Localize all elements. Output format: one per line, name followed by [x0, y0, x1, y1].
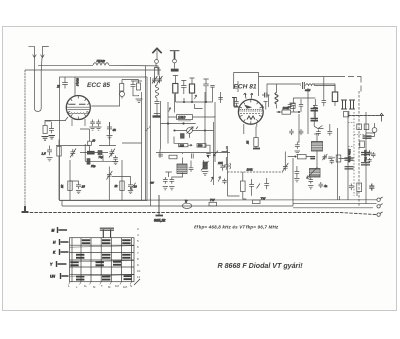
- resistor R7: [120, 181, 124, 191]
- capacitor C20: [192, 154, 194, 159]
- ground G15: [308, 186, 313, 189]
- capacitor C30 coupling: [303, 82, 305, 89]
- svg-text:50/0,8: 50/0,8: [76, 78, 80, 86]
- svg-text:80/1,2k: 80/1,2k: [154, 219, 166, 223]
- varicap VC1: [187, 128, 193, 134]
- wire top bus 1: [38, 65, 158, 80]
- wire antenna lead 1: [33, 58, 35, 108]
- wire mid verticals: [70, 80, 146, 200]
- inductor L3 input coil: [155, 84, 159, 102]
- box K2: [344, 112, 349, 117]
- svg-text:T.: T.: [101, 284, 103, 288]
- wire top bus 2: [25, 69, 161, 71]
- capacitor C22 dark: [203, 162, 207, 169]
- resistor R4: [57, 147, 61, 157]
- svg-text:ℓf kp= 468,8 kHz és VT fkp=: ℓf kp= 468,8 kHz és VT fkp= 96,7 MHz: [194, 225, 279, 230]
- capacitor C11 15p: [76, 183, 81, 190]
- ground G14: [294, 179, 299, 182]
- mid IF box: [62, 77, 293, 206]
- capacitor C17: [210, 86, 214, 103]
- wire x337 vertical: [337, 128, 339, 200]
- svg-text:1M: 1M: [115, 284, 120, 288]
- capacitor C15: [181, 81, 186, 95]
- capacitor C19: [158, 150, 163, 159]
- svg-text:100: 100: [180, 143, 185, 147]
- wire osc loop: [80, 129, 118, 164]
- capacitor C52: [299, 129, 304, 135]
- ground G5: [96, 127, 102, 130]
- IFT block T2 hatched: [312, 142, 323, 152]
- matrix columns: [81, 238, 121, 282]
- trimmer CT2: [109, 149, 115, 158]
- svg-text:10: 10: [92, 139, 95, 143]
- wire cathode leads: [45, 117, 68, 126]
- capacitor C1 2t: [62, 77, 68, 89]
- resistor R3: [43, 126, 47, 134]
- resistor R12 below line: [169, 155, 177, 159]
- capacitor C42: [357, 124, 362, 130]
- ground G3: [49, 136, 56, 139]
- switch lever M: [58, 227, 68, 233]
- capacitor C57 dark: [181, 134, 185, 139]
- resistor R20: [357, 183, 362, 192]
- inductor L1 top coil: [93, 63, 109, 65]
- inductor L2 50/0,8 lead: [74, 77, 76, 96]
- wire left chassis vertical: [24, 70, 26, 212]
- capacitor C13: [155, 102, 160, 107]
- terminal chassis ground left: [22, 206, 29, 212]
- svg-text:1L: 1L: [84, 284, 88, 288]
- svg-text:FE16t: FE16t: [97, 59, 105, 63]
- capacitor C22b 100p: [220, 162, 224, 171]
- capacitor C32: [322, 95, 327, 106]
- arrow AGC small: [195, 95, 197, 99]
- capacitor C38: [309, 178, 314, 184]
- terminal output circles: [377, 197, 383, 216]
- svg-text:M: M: [52, 229, 55, 233]
- capacitor C49: [234, 98, 238, 108]
- AM antenna coupling bar: [171, 69, 178, 71]
- contact blocks: [70, 239, 132, 280]
- capacitor C55: [328, 157, 335, 159]
- inductor L5 dark: [275, 93, 278, 105]
- trimmer CT1: [70, 149, 76, 158]
- svg-text:2k: 2k: [114, 184, 119, 188]
- FM tuner box: [60, 77, 148, 201]
- trimmer pot circle: [120, 92, 125, 97]
- ground G4: [90, 127, 96, 130]
- wire tube top left: [234, 81, 239, 106]
- bottom tick labels: [68, 284, 133, 289]
- svg-text:1010: 1010: [178, 116, 186, 120]
- wire anode to right: [91, 80, 138, 107]
- wire osc bottom: [165, 172, 182, 177]
- wire osc section row: [156, 151, 230, 153]
- box K1: [291, 103, 296, 108]
- trimmer CT5 FM lead: [157, 76, 162, 84]
- svg-text:ECH 81: ECH 81: [234, 84, 257, 91]
- ground G18: [202, 172, 209, 176]
- resistor R19: [336, 155, 341, 162]
- svg-text:R 8668 F Diodal VT gyári!: R 8668 F Diodal VT gyári!: [218, 262, 304, 270]
- capacitor C40 top right: [316, 130, 321, 136]
- trimmer CT6: [283, 163, 289, 172]
- tube U2 ECH81 envelope: [238, 99, 263, 124]
- wire osc row: [56, 122, 116, 146]
- wire x325 vertical: [323, 77, 325, 95]
- resistor R8 bold: [173, 84, 178, 94]
- wire osc verticals: [183, 146, 227, 166]
- resistor R5 dark: [87, 159, 90, 165]
- tube U1 electrodes: [67, 96, 90, 127]
- capacitor C53: [371, 149, 373, 151]
- IF transformer box 1010: [177, 115, 193, 120]
- capacitor C29: [313, 99, 318, 112]
- ground G16: [156, 215, 164, 217]
- slash mark: [134, 279, 140, 285]
- capacitor C28: [299, 99, 303, 112]
- wire to R15: [315, 86, 336, 93]
- resistor R10: [179, 144, 188, 147]
- capacitor C12 10p: [128, 183, 133, 190]
- pin arrow into grid: [244, 93, 253, 99]
- capacitor C34 thick: [311, 119, 319, 121]
- capacitor C25: [169, 177, 174, 184]
- ground G12: [169, 187, 174, 190]
- tube U1 ECC85 envelope: [66, 96, 90, 120]
- capacitor C27: [291, 98, 296, 112]
- ground bus bottom dashed: [25, 213, 377, 215]
- svg-text:15: 15: [82, 185, 86, 189]
- trimmer CT3: [107, 171, 113, 180]
- AM antenna symbol: [170, 50, 180, 52]
- capacitor C24: [163, 177, 168, 184]
- capacitor C16 T: [203, 79, 208, 102]
- capacitor C41: [327, 124, 332, 136]
- trimmer arrow on C12: [131, 183, 136, 190]
- ground G17: [253, 148, 260, 150]
- FM dipole antenna symbol: [152, 48, 161, 53]
- resistor R21 on bus: [209, 202, 217, 206]
- ground G1: [136, 99, 143, 103]
- chassis bar B1: [153, 115, 161, 117]
- svg-text:10p: 10p: [91, 164, 96, 168]
- fuse Tr oval: [182, 203, 192, 208]
- capacitor C35: [295, 143, 300, 149]
- capacitor C20b: [206, 154, 210, 159]
- capacitor C48 electrolytic: [369, 184, 374, 191]
- arrow osc: [214, 150, 228, 157]
- switch lever K: [60, 249, 69, 255]
- ground G11: [163, 187, 168, 190]
- matrix frame: [70, 238, 135, 282]
- capacitor C44: [367, 150, 372, 156]
- wire vertical V1: [347, 112, 349, 200]
- capacitor C51: [289, 129, 294, 135]
- row diagonal links: [70, 246, 135, 277]
- wire mixer junction row: [176, 98, 213, 102]
- dashed AGC wire: [228, 171, 284, 173]
- wire tube left pin: [232, 98, 239, 108]
- svg-text:10: 10: [137, 269, 141, 273]
- resistor R15 bold: [332, 92, 337, 102]
- wire T2 T3 link: [314, 134, 317, 169]
- capacitor C36: [295, 166, 300, 177]
- wire links right mid: [285, 114, 314, 178]
- resistor R1: [120, 84, 124, 92]
- resistor R6: [68, 181, 72, 191]
- capacitor C45: [367, 158, 371, 163]
- arrow junction: [314, 126, 323, 129]
- switch lever H: [60, 239, 69, 245]
- wire bus lower right extra: [293, 204, 377, 208]
- wire dashed inner column: [353, 112, 355, 196]
- capacitor C54: [371, 152, 375, 158]
- capacitor C8 6p: [88, 141, 92, 145]
- capacitor C9b dark: [98, 151, 102, 155]
- wire h links: [293, 98, 315, 121]
- resistor R2: [137, 83, 141, 90]
- resistor R16: [298, 155, 307, 159]
- ground G10: [128, 191, 133, 194]
- wire to 1010 box: [161, 101, 203, 150]
- resistor R14 100k: [282, 110, 291, 114]
- matrix rows: [70, 245, 135, 274]
- svg-text:40: 40: [113, 128, 117, 132]
- IF transformer H-coils: [341, 100, 355, 109]
- wire inner top right loop: [267, 84, 335, 93]
- svg-text:100: 100: [218, 161, 223, 165]
- resistor R13 under tube: [254, 138, 258, 147]
- wire antenna U-link: [34, 108, 41, 111]
- dashed IF box right: [358, 91, 360, 206]
- svg-text:N.: N.: [130, 284, 133, 288]
- svg-text:11: 11: [137, 275, 140, 279]
- capacitor C5 under tube: [96, 120, 101, 127]
- capacitor C6 40p: [107, 122, 112, 134]
- capacitor C10: [113, 156, 117, 162]
- wire osc grid: [262, 102, 268, 110]
- capacitor C18: [218, 98, 223, 100]
- wire link2: [112, 143, 142, 183]
- svg-text:2k: 2k: [60, 184, 64, 189]
- svg-text:UH: UH: [50, 275, 55, 279]
- wire right link: [222, 146, 240, 196]
- drive shaft top-hat: [100, 228, 114, 238]
- ground G13: [295, 151, 300, 154]
- antenna A2 dipole half: [41, 46, 49, 57]
- wire vertical V3: [339, 196, 341, 200]
- trimmer CT7: [322, 154, 327, 160]
- wire mid verticals: [175, 92, 221, 162]
- svg-text:ECC 85: ECC 85: [87, 82, 110, 89]
- terminal det output: [380, 113, 383, 121]
- right pin numbers: [137, 227, 141, 279]
- wire bus lower 1: [60, 199, 377, 201]
- resistor R11: [197, 144, 206, 148]
- resistor R18: [360, 141, 365, 148]
- svg-text:1,5: 1,5: [42, 152, 47, 156]
- capacitor C58 bars: [363, 136, 372, 138]
- capacitor C14 T: [173, 76, 178, 84]
- wire R4 down: [50, 146, 60, 201]
- dashed detector line: [348, 115, 384, 117]
- bottom ticks: [69, 282, 132, 285]
- tube U2 electrodes: [239, 99, 262, 134]
- ground G9: [76, 191, 81, 194]
- capacitor C37: [249, 179, 254, 196]
- wire FM twin lead: [155, 67, 160, 76]
- wire x308 vertical: [307, 88, 309, 134]
- resistor R17: [241, 181, 246, 192]
- wire outer top right loop: [234, 73, 361, 97]
- svg-text:100k: 100k: [247, 168, 254, 172]
- capacitor C23 34p: [224, 162, 231, 170]
- capacitor C3: [49, 126, 54, 133]
- wire dashed diag: [146, 127, 151, 132]
- svg-text:500: 500: [198, 144, 203, 148]
- capacitor C21: [189, 166, 194, 172]
- wire osc row2: [80, 152, 108, 154]
- svg-text:M.: M.: [108, 285, 111, 289]
- inductor L6: [306, 84, 315, 86]
- resistor R9 bold: [190, 78, 195, 84]
- wire vertical V2: [365, 112, 367, 204]
- svg-text:2k: 2k: [246, 140, 250, 145]
- svg-text:100n 50n: 100n 50n: [364, 150, 368, 162]
- capacitor C39 4n: [319, 182, 324, 188]
- switch lever UH: [61, 273, 69, 279]
- capacitor C7 1,5p: [47, 148, 52, 155]
- pot symbol P1: [372, 128, 377, 133]
- wire bus lower 2: [62, 205, 293, 207]
- capacitor C50: [264, 178, 269, 189]
- wire dial lamp drop: [158, 195, 160, 215]
- antenna A1 dipole half: [28, 46, 36, 57]
- varicap arrows: [211, 177, 221, 183]
- trimmer CT4 FM lead: [152, 76, 157, 84]
- capacitor C2: [131, 81, 136, 91]
- capacitor C31: [288, 103, 293, 109]
- svg-text:70p: 70p: [98, 155, 103, 159]
- ground G2: [42, 137, 49, 141]
- capacitor C47: [349, 184, 354, 191]
- ground G6: [107, 136, 113, 139]
- resistor R22 on bus: [253, 200, 261, 204]
- svg-text:2t: 2t: [56, 85, 60, 89]
- IFT block T3 hatched: [307, 167, 321, 179]
- svg-text:1.: 1.: [68, 284, 71, 288]
- capacitor C4 under tube: [90, 120, 95, 127]
- switch lever Y: [57, 261, 67, 267]
- ground G8: [113, 162, 118, 165]
- capacitor C46: [330, 159, 334, 165]
- capacitor C33 thick: [311, 109, 319, 111]
- wire link: [70, 181, 79, 183]
- oscillator coil L4 hatched: [177, 164, 187, 174]
- wire grid link: [122, 81, 142, 99]
- capacitor C9 dark pair: [87, 152, 95, 154]
- capacitor C26: [265, 93, 267, 98]
- ground G7: [47, 158, 53, 161]
- capacitor C43: [364, 124, 369, 130]
- wire antenna lead 2: [40, 58, 43, 108]
- wire right links: [339, 116, 385, 197]
- svg-text:1M.: 1M.: [123, 285, 128, 289]
- capacitor C56 dark: [310, 157, 315, 159]
- svg-text:4n: 4n: [324, 184, 328, 188]
